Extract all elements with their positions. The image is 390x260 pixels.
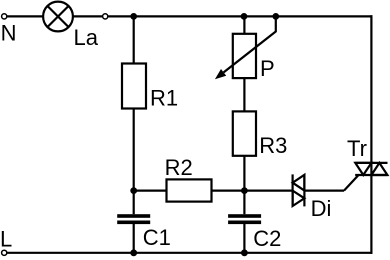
svg-text:R2: R2 [165,155,193,180]
svg-text:R3: R3 [259,133,287,158]
svg-text:N: N [1,21,17,46]
svg-text:C1: C1 [143,225,171,250]
svg-text:L: L [0,226,12,251]
svg-text:P: P [260,56,275,81]
svg-text:C2: C2 [253,226,281,251]
svg-text:Tr: Tr [347,136,367,161]
svg-text:R1: R1 [150,85,178,110]
svg-text:La: La [74,25,99,50]
svg-text:Di: Di [311,196,332,221]
